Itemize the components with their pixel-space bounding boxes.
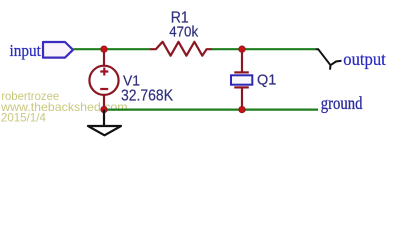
wire input to R1 (top left) bbox=[74, 48, 151, 50]
svg-text:Q1: Q1 bbox=[257, 72, 276, 89]
V1 minus sign bbox=[100, 88, 108, 90]
junction top-left bbox=[101, 46, 107, 52]
output pin symbol bbox=[316, 49, 342, 69]
ground lead bbox=[103, 110, 105, 126]
input port symbol bbox=[43, 42, 73, 58]
Q1 bottom lead bbox=[241, 87, 243, 109]
wire R1 to output corner (top right) bbox=[212, 48, 317, 50]
Q1 top plate bbox=[234, 71, 249, 73]
Q1 top lead bbox=[241, 49, 243, 72]
Q1 crystal body bbox=[231, 75, 252, 84]
junction top-right bbox=[239, 46, 245, 52]
V1 bottom lead bbox=[103, 95, 105, 110]
svg-text:input: input bbox=[10, 41, 42, 60]
voltage source V1 bbox=[89, 49, 118, 109]
V1 top lead bbox=[103, 49, 105, 66]
Q1 bottom plate bbox=[234, 86, 249, 88]
crystal Q1 bbox=[231, 49, 252, 109]
svg-text:32.768K: 32.768K bbox=[121, 87, 173, 104]
V1 circle bbox=[89, 66, 118, 95]
svg-text:output: output bbox=[343, 49, 386, 69]
ground symbol bbox=[88, 126, 121, 135]
svg-text:ground: ground bbox=[321, 93, 363, 113]
svg-text:470k: 470k bbox=[169, 24, 198, 41]
svg-text:2015/1/4: 2015/1/4 bbox=[1, 110, 46, 124]
junction bottom-left bbox=[101, 106, 107, 112]
V1 plus sign bbox=[100, 68, 108, 76]
resistor R1 bbox=[150, 42, 212, 56]
wire bottom (V1 to ground label) bbox=[104, 108, 318, 110]
junction bottom-right bbox=[239, 106, 245, 112]
